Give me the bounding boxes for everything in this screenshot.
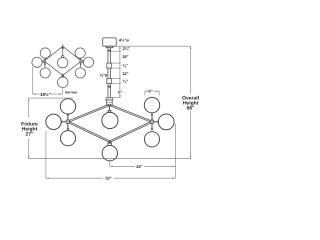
26in dimension line (110, 166, 176, 167)
Fixture Height 27in label (21, 121, 38, 137)
svg-text:¾": ¾" (123, 79, 128, 84)
fixture bottom extension line (29, 158, 191, 160)
stem nut upper (108, 50, 111, 52)
svg-text:6": 6" (149, 89, 153, 94)
side view right hub (79, 57, 85, 68)
side view right-hub bottom globe (75, 68, 85, 78)
svg-text:12": 12" (122, 71, 128, 76)
bottom hub fitting (107, 140, 112, 143)
dimension lines (28, 46, 191, 179)
svg-text:4½"ø: 4½"ø (119, 37, 129, 42)
6in stem label on line (118, 90, 123, 95)
6in globe dimension top right (145, 91, 159, 96)
26/53 right extension (174, 124, 176, 179)
side view diamond frame (44, 46, 81, 75)
side view left-hub top globe (40, 48, 50, 58)
svg-text:53": 53" (105, 176, 111, 181)
fixture height dimension line (28, 98, 73, 159)
right hub cluster (150, 113, 160, 131)
side view bottom globe (57, 77, 68, 88)
center globe collar (108, 111, 111, 113)
side view left-hub left globe (32, 57, 42, 67)
side view center globe (58, 58, 68, 68)
side view apex finial (62, 44, 64, 46)
diamond arm left-bottom (68, 121, 111, 142)
right-hub bottom globe (144, 132, 159, 147)
left-hub left globe (46, 114, 61, 129)
right-hub top globe (144, 97, 159, 112)
svg-text:26": 26" (136, 164, 142, 169)
svg-text:Side View: Side View (65, 91, 78, 95)
stem nut lower (108, 86, 111, 88)
top hub (107, 100, 113, 105)
svg-text:66": 66" (187, 105, 196, 111)
diamond arm top-left (double line rod) (68, 104, 110, 122)
stem coupler lower (107, 79, 112, 84)
stem coupler upper (107, 63, 112, 68)
bottom globe (102, 145, 117, 160)
center globe (102, 112, 118, 128)
svg-text:6": 6" (118, 90, 122, 95)
side view center globe collar (62, 56, 64, 58)
side view right-hub top globe (75, 48, 85, 58)
canopy flange (106, 46, 113, 48)
left-hub bottom globe (60, 131, 75, 146)
svg-text:⅝"ø: ⅝"ø (100, 72, 108, 77)
center rod (108, 105, 110, 111)
side view bottom finial arrow (61, 73, 64, 76)
svg-text:27": 27" (26, 131, 35, 137)
canopy (103, 38, 117, 105)
Overall Height 66in label (182, 95, 200, 111)
right-hub right globe (158, 114, 174, 130)
53in left extension (45, 131, 47, 179)
53in dimension line (46, 178, 176, 179)
stem rod (108, 48, 111, 98)
svg-text:¾": ¾" (123, 63, 128, 68)
19.5in dimension (33, 67, 63, 95)
side view left hub (40, 57, 46, 68)
svg-text:2¾": 2¾" (123, 46, 131, 51)
diamond arm top-right (109, 104, 152, 122)
stem bottom cap (106, 98, 113, 100)
side view bottom globe collar (62, 77, 64, 79)
overall height dimension line (190, 46, 191, 159)
stem dimension line (111, 46, 121, 97)
side view left-hub bottom globe (40, 68, 50, 78)
diamond arm right-bottom (109, 121, 152, 142)
side view center rod (62, 49, 64, 57)
left-hub top globe (60, 99, 75, 114)
svg-text:19½": 19½" (40, 92, 51, 97)
fixture height top extension (29, 97, 73, 99)
26in bracket (109, 161, 111, 166)
bottom globe collar (108, 146, 111, 148)
side view right-hub right globe (83, 57, 93, 67)
ceiling reference line (115, 45, 190, 47)
left hub cluster (60, 113, 70, 131)
svg-text:18": 18" (122, 54, 128, 59)
